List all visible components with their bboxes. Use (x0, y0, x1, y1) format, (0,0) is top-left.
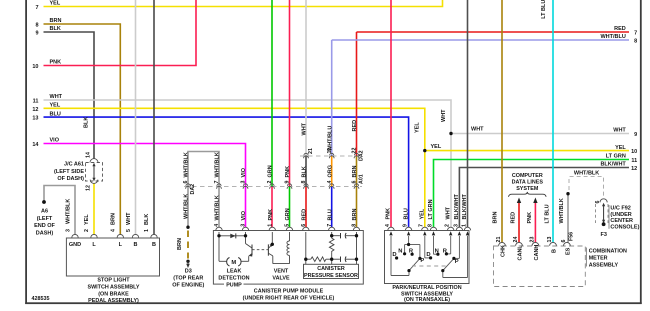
svg-text:STOP LIGHT: STOP LIGHT (97, 278, 130, 284)
svg-text:WHT/BLK: WHT/BLK (65, 199, 71, 224)
svg-text:21: 21 (308, 148, 314, 154)
wire LT BLU top to meter pin13 (552, 0, 554, 242)
connector arc park/neutral x424.8 (422, 227, 428, 230)
svg-text:METER: METER (589, 256, 608, 262)
svg-text:8: 8 (301, 181, 307, 184)
diode (230, 234, 235, 239)
wire RED connector to module pin6 (305, 187, 307, 228)
connector dashed line lower (184, 186, 362, 188)
svg-text:WHT: WHT (302, 122, 308, 135)
svg-text:PNK: PNK (386, 208, 392, 220)
node F3 ground (602, 222, 606, 226)
wire BRN pin8 to stop light switch pin4 (44, 24, 121, 235)
wire BLK top to stop light switch pin1 (153, 0, 155, 235)
wire YEL junction down to park/neutral pin7 (424, 151, 426, 228)
svg-text:4: 4 (214, 224, 220, 227)
svg-text:WHT: WHT (445, 206, 451, 219)
wire BRN connector to connector A01 (356, 156, 358, 187)
bracket U/C F92 (608, 205, 610, 229)
inline connector arcs upper x356.5 (354, 153, 358, 155)
svg-text:7: 7 (634, 31, 637, 37)
svg-text:WHT/BLK: WHT/BLK (559, 198, 565, 223)
svg-text:BLK: BLK (144, 214, 150, 225)
wire WHT/BLK A6 to stop light GND (44, 186, 75, 235)
inline connector arcs x306 (304, 184, 308, 186)
svg-text:DATA LINES: DATA LINES (512, 180, 544, 186)
connector arc meter pin 23 (532, 242, 539, 245)
svg-text:PNK: PNK (527, 212, 533, 224)
svg-text:PNK: PNK (285, 166, 291, 178)
wire WHT/BLU down to connector 11 (331, 40, 333, 156)
svg-text:BRN: BRN (352, 166, 358, 178)
wire YEL pin7 left to top (44, 0, 443, 7)
svg-text:WHT/BLK: WHT/BLK (574, 171, 599, 177)
wire YEL J/C A61 pin12 to stop light switch pin2 (93, 183, 95, 234)
svg-text:WHT/BLK: WHT/BLK (184, 194, 190, 219)
wire WHT junction to right pin9 (451, 133, 629, 135)
inline connector arcs x219 (217, 184, 221, 186)
inline connector arcs upper x306 (304, 153, 308, 155)
svg-text:12: 12 (85, 185, 91, 191)
svg-text:YEL: YEL (415, 122, 421, 133)
combination meter assembly dashed box (494, 246, 586, 287)
wire YEL pin12 to junction (44, 108, 425, 150)
svg-text:4: 4 (327, 181, 333, 184)
svg-text:LT BLU: LT BLU (545, 204, 551, 223)
svg-text:7: 7 (419, 224, 425, 227)
svg-text:CONSOLE): CONSOLE) (610, 224, 639, 230)
wire WHT/BLU to right pin8 (332, 39, 629, 41)
wire WHT/BLK to meter pin6 (567, 194, 569, 243)
svg-text:SYSTEM: SYSTEM (516, 186, 539, 192)
svg-text:DA2: DA2 (190, 184, 196, 195)
svg-text:CANL: CANL (518, 245, 524, 261)
svg-text:2: 2 (267, 181, 273, 184)
svg-text:YEL: YEL (420, 208, 426, 219)
svg-text:1: 1 (144, 229, 150, 232)
svg-text:7: 7 (214, 181, 220, 184)
svg-text:B: B (552, 249, 558, 253)
svg-text:5: 5 (126, 229, 132, 232)
module internal wiring (219, 232, 357, 264)
svg-text:PUMP: PUMP (226, 282, 242, 288)
wire WHT/BLK to module pin4 (218, 187, 220, 228)
svg-text:GND: GND (69, 242, 81, 248)
svg-text:6: 6 (301, 224, 307, 227)
pin arrow park/neutral x391 (389, 231, 392, 235)
wire BLK/WHT right pin12 to park/neutral pin3 (459, 168, 629, 228)
pin arrow park/neutral x450.7 (449, 231, 452, 235)
svg-text:COMPUTER: COMPUTER (512, 173, 543, 179)
connector dashed line upper (300, 155, 362, 157)
svg-text:END OF: END OF (34, 223, 55, 229)
page border right (640, 0, 642, 304)
connector arc meter pin 24 (516, 242, 523, 245)
wire BLK pin9 to J/C A61 pin14 (44, 32, 95, 159)
connector arc module x305.8 (303, 227, 309, 230)
wire WHT junction down to park/neutral pin2 (450, 134, 452, 228)
connector arc module x272.3 (269, 227, 275, 230)
wire BRN top to meter pin21 (501, 0, 503, 242)
svg-text:3: 3 (65, 229, 71, 232)
svg-text:P: P (455, 259, 459, 265)
svg-text:N: N (435, 248, 439, 254)
shield dashed lines (569, 177, 604, 199)
svg-text:14: 14 (32, 142, 39, 148)
node A6 (42, 200, 46, 204)
svg-text:3: 3 (241, 224, 247, 227)
page border bottom (25, 302, 642, 304)
park/neutral internal wiring (391, 236, 468, 278)
svg-text:LT BLU: LT BLU (541, 0, 547, 19)
wire WHT pin11 to junction (44, 100, 452, 134)
svg-text:8: 8 (634, 39, 637, 45)
wire YEL junction to right pin10 (425, 150, 629, 152)
connector arc module x245.5 (242, 227, 248, 230)
wire BRN ground link dashed (187, 231, 189, 259)
svg-text:4: 4 (111, 229, 117, 232)
svg-text:428535: 428535 (32, 296, 50, 302)
wire PNK pin10 to top (44, 0, 197, 66)
wire WHT/BLK jumper DA2 pin6 to pin7 (188, 152, 219, 187)
svg-text:12: 12 (32, 107, 38, 113)
svg-text:YEL: YEL (431, 144, 442, 150)
connector arc module x289.5 (286, 227, 292, 230)
label combination meter assembly (585, 248, 587, 267)
svg-text:A6: A6 (41, 209, 48, 215)
svg-text:PNK: PNK (268, 209, 274, 221)
svg-text:3: 3 (241, 181, 247, 184)
capacitor C1 (340, 233, 342, 238)
svg-text:SWITCH ASSEMBLY: SWITCH ASSEMBLY (87, 285, 139, 291)
svg-text:4: 4 (385, 224, 391, 227)
connector arc meter pin 13 (550, 242, 557, 245)
svg-text:CANH: CANH (534, 245, 540, 261)
svg-text:WHT/BLK: WHT/BLK (215, 152, 221, 177)
svg-text:B: B (134, 242, 138, 248)
svg-text:6: 6 (352, 181, 358, 184)
svg-text:ASSEMBLY: ASSEMBLY (589, 263, 619, 269)
svg-text:13: 13 (547, 237, 553, 243)
wire PNK CANH to meter pin23 (534, 203, 536, 242)
svg-text:BLK/WHT: BLK/WHT (462, 194, 468, 220)
svg-text:12: 12 (631, 166, 637, 172)
svg-text:6: 6 (561, 240, 567, 243)
svg-text:BLK: BLK (83, 117, 89, 128)
svg-text:8: 8 (352, 224, 358, 227)
node dots module (217, 234, 220, 237)
node splice (186, 226, 189, 229)
svg-text:BRN: BRN (111, 213, 117, 225)
svg-text:F56: F56 (569, 232, 575, 241)
svg-text:M: M (231, 260, 236, 266)
svg-text:10: 10 (631, 149, 637, 155)
svg-text:VENT: VENT (274, 268, 289, 274)
wire WHT top to connector 21 (305, 0, 307, 156)
wire RED to right pin7 (357, 31, 630, 33)
connector arc park/neutral x459.4 (456, 227, 462, 230)
connector arc module x331.7 (329, 227, 335, 230)
svg-text:D: D (392, 252, 396, 258)
brace computer data lines (509, 192, 547, 197)
svg-text:11: 11 (33, 99, 39, 105)
svg-text:(ON BRAKE: (ON BRAKE (98, 291, 129, 297)
connector arc park/neutral x433.5 (430, 227, 436, 230)
svg-text:PARK/NEUTRAL POSITION: PARK/NEUTRAL POSITION (392, 285, 461, 291)
svg-text:BLK: BLK (302, 166, 308, 177)
svg-text:1: 1 (461, 224, 467, 227)
transistor Q2 emitter arrow (270, 244, 273, 247)
svg-text:P: P (420, 258, 424, 264)
connector U/C F92 (600, 199, 607, 203)
connector arc stop light x75 (72, 234, 78, 237)
svg-text:14: 14 (85, 152, 91, 158)
svg-text:ORG: ORG (327, 165, 333, 178)
svg-text:DETECTION: DETECTION (218, 275, 249, 281)
svg-text:13: 13 (32, 116, 38, 122)
wire ORG between connectors (331, 156, 333, 187)
wire GRN top to connector (271, 0, 273, 187)
wire BRN connector to module pin8 (356, 187, 358, 228)
svg-text:LT GRN: LT GRN (428, 199, 434, 219)
svg-text:(LEFT SIDE: (LEFT SIDE (54, 169, 84, 175)
svg-text:6: 6 (595, 201, 601, 204)
wire BLU connector to module pin7 (331, 187, 333, 228)
wire WHT top to stop light switch pin5 (135, 0, 137, 235)
svg-text:1: 1 (268, 224, 274, 227)
motor M leak detection pump (227, 258, 241, 267)
svg-text:8: 8 (427, 224, 433, 227)
svg-text:OF ENGINE): OF ENGINE) (172, 282, 204, 288)
junction connector J/C A61 (90, 159, 98, 163)
svg-text:CANISTER PUMP MODULE: CANISTER PUMP MODULE (254, 289, 324, 295)
label leak detection pump (224, 281, 244, 288)
stop light switch assembly box (66, 238, 159, 276)
resistor R1 vertical (329, 238, 334, 253)
svg-text:BRN: BRN (352, 209, 358, 221)
connector arc meter pin 21 (499, 242, 506, 245)
connector arc stop light x135.5 (132, 234, 138, 237)
svg-text:(UNDER: (UNDER (610, 212, 631, 218)
wire LT GRN right pin11 to park/neutral pin8 (434, 160, 630, 228)
svg-text:OF DASH): OF DASH) (57, 176, 84, 182)
svg-text:24: 24 (513, 237, 519, 243)
capacitor C2 (340, 257, 342, 262)
inline connector arcs upper x331.7 (330, 153, 334, 155)
node shield (566, 192, 569, 195)
svg-text:B: B (152, 242, 156, 248)
vent valve coil (287, 241, 290, 255)
svg-text:5: 5 (285, 224, 291, 227)
svg-text:3: 3 (453, 224, 459, 227)
wire BLK connector21 to connector (305, 156, 307, 187)
pin arrow park/neutral x408.6 (407, 231, 410, 235)
svg-text:GRN: GRN (268, 165, 274, 177)
svg-text:(UNDER RIGHT REAR OF VEHICLE): (UNDER RIGHT REAR OF VEHICLE) (243, 296, 335, 302)
svg-text:CENTER: CENTER (610, 218, 633, 224)
connector arc module x356.5 (353, 227, 359, 230)
svg-text:F3: F3 (600, 232, 606, 238)
svg-text:PEDAL ASSEMBLY): PEDAL ASSEMBLY) (88, 298, 139, 304)
svg-text:PRESSURE SENSOR: PRESSURE SENSOR (304, 273, 358, 279)
svg-text:10: 10 (32, 64, 38, 70)
connector arc stop light x154 (151, 234, 157, 237)
connector arc park/neutral x408.6 (405, 227, 411, 230)
svg-text:D3: D3 (185, 268, 192, 274)
wire PNK connector to module pin1 (271, 187, 273, 228)
svg-text:(TOP REAR: (TOP REAR (173, 275, 203, 281)
svg-text:YEL: YEL (84, 214, 90, 225)
svg-text:7: 7 (327, 224, 333, 227)
wire GRN connector to module pin5 (289, 187, 291, 228)
pin arrow park/neutral x433.5 (432, 231, 435, 235)
svg-text:GRN: GRN (285, 208, 291, 220)
svg-text:23: 23 (530, 237, 536, 243)
svg-text:N: N (398, 248, 402, 254)
wire PNK top to park/neutral pin4 (390, 0, 392, 227)
wire BLU pin13 to park/neutral pin9 (44, 117, 409, 227)
inline connector arcs x289.5 (287, 184, 291, 186)
svg-text:2: 2 (84, 229, 90, 232)
pin arrow park/neutral x467.5 (466, 231, 469, 235)
inline connector arcs x356.5 (354, 184, 358, 186)
svg-text:D: D (426, 252, 430, 258)
svg-text:VIO: VIO (241, 210, 247, 220)
svg-text:RED: RED (511, 212, 517, 224)
svg-text:(LEFT: (LEFT (37, 216, 53, 222)
svg-text:22: 22 (352, 148, 358, 154)
svg-text:CHK: CHK (501, 245, 507, 257)
svg-text:9: 9 (634, 132, 637, 138)
resistor R2 horizontal (311, 257, 326, 262)
arrowhead CANL (517, 198, 521, 204)
canister pump module box (213, 231, 363, 285)
arrowhead CANH (533, 198, 537, 204)
svg-text:9: 9 (35, 31, 38, 37)
svg-text:9: 9 (285, 181, 291, 184)
ground symbol D3 (187, 261, 189, 264)
svg-text:RED: RED (302, 209, 308, 221)
svg-text:9: 9 (403, 224, 409, 227)
svg-text:WHT/BLK: WHT/BLK (184, 152, 190, 177)
park/neutral position switch box (385, 231, 470, 284)
canister pressure sensor box (304, 264, 359, 278)
svg-text:WHT: WHT (471, 127, 484, 133)
svg-text:DA2: DA2 (358, 150, 364, 161)
svg-text:WHT: WHT (441, 109, 447, 122)
pin arrow park/neutral x424.8 (423, 231, 426, 235)
svg-text:DASH): DASH) (36, 230, 54, 236)
svg-text:RED: RED (352, 120, 358, 132)
connector arc park/neutral x450.7 (448, 227, 454, 230)
connector arc module x219 (216, 227, 222, 230)
svg-text:6: 6 (183, 181, 189, 184)
wire BLK/WHT top to park/neutral pin1 (467, 0, 469, 227)
pin arrow park/neutral x459.4 (458, 231, 461, 235)
wire PNK top to connector (289, 0, 291, 187)
wire VIO pin14 to canister pump module pin3 (44, 144, 246, 228)
svg-text:BRN: BRN (493, 212, 499, 224)
connector arc park/neutral x391 (388, 227, 394, 230)
transistor Q1 emitter arrow (249, 254, 252, 257)
svg-text:WHT: WHT (126, 212, 132, 225)
inline connector arcs x245.5 (243, 184, 247, 186)
svg-text:21: 21 (496, 237, 502, 243)
junction dot WHT (449, 132, 452, 135)
svg-text:BLU: BLU (403, 208, 409, 219)
inline connector arcs x272 (270, 184, 274, 186)
svg-text:2: 2 (445, 224, 451, 227)
connector arc meter pin 6 (564, 242, 571, 245)
connector arc park/neutral x467.5 (464, 227, 470, 230)
wire RED CANL to meter pin24 (518, 203, 520, 242)
svg-text:CANISTER: CANISTER (317, 266, 345, 272)
svg-text:COMBINATION: COMBINATION (589, 249, 627, 255)
svg-text:VALVE: VALVE (272, 275, 290, 281)
inline connector arcs x188 (186, 184, 190, 186)
svg-text:ES: ES (566, 247, 572, 255)
svg-text:BRN: BRN (177, 238, 183, 250)
connector arc stop light x120.3 (117, 234, 123, 237)
svg-text:VIO: VIO (241, 167, 247, 177)
page border left (25, 0, 27, 304)
svg-text:A01: A01 (358, 174, 364, 184)
contact dots park/neutral (395, 256, 398, 259)
svg-text:J/C A61: J/C A61 (64, 162, 84, 168)
svg-text:BLK/WHT: BLK/WHT (454, 194, 460, 220)
junction dot YEL (423, 149, 426, 152)
svg-text:7: 7 (35, 5, 38, 11)
svg-text:(ON TRANSAXLE): (ON TRANSAXLE) (404, 297, 450, 303)
svg-text:LEAK: LEAK (227, 268, 242, 274)
node splice D3 (186, 260, 189, 263)
svg-text:BLU: BLU (327, 209, 333, 220)
inline connector arcs x331.7 (330, 184, 334, 186)
svg-text:U/C F92: U/C F92 (610, 206, 630, 212)
wire RED down to connector DA2 (356, 32, 358, 156)
svg-text:8: 8 (35, 23, 38, 29)
svg-text:11: 11 (631, 158, 637, 164)
svg-text:WHT/BLU: WHT/BLU (327, 126, 333, 151)
wire WHT/BLK to ground splice (187, 187, 189, 228)
svg-text:WHT/BLK: WHT/BLK (215, 195, 221, 220)
connector arc stop light x94 (91, 234, 97, 237)
